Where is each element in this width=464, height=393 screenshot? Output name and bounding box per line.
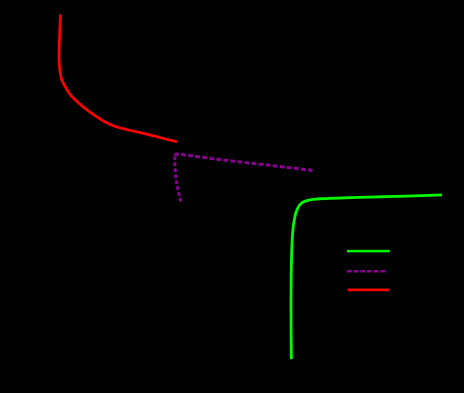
green curve (291, 195, 442, 359)
legend red sample (348, 289, 389, 292)
purple dashed curve horizontal arm (175, 154, 313, 171)
legend purple dashed sample (347, 270, 387, 273)
red curve (59, 15, 177, 142)
legend green sample (347, 250, 390, 253)
purple dashed curve (175, 155, 181, 202)
